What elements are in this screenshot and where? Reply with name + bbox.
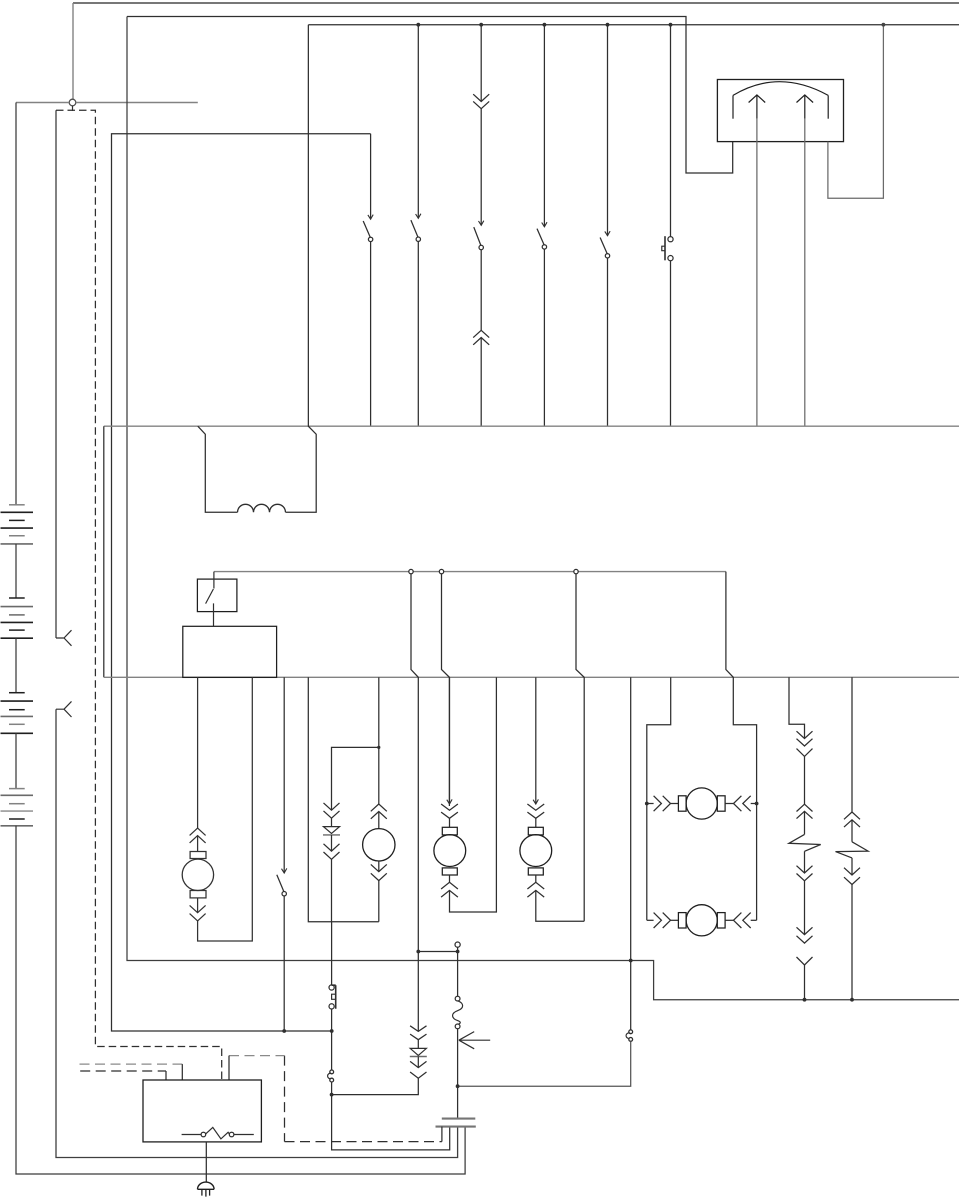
wire: below CB1 to bottom rail y=1149.9 to condenser [332,1082,450,1150]
gauge right tick [827,95,829,118]
pushbutton switch S6 [668,237,673,242]
wire: rail right end jog at bus2 to motor-pair right rail [726,572,757,921]
wire: gauge sender lead 2 down to bus1 [804,119,806,427]
connector chevrons below motor B [535,875,537,882]
breaker contact CB1 [330,1070,334,1074]
wire: diode branch top link y=747.4 [332,747,379,810]
wire: below S7 down to bus y=1031 [283,896,285,1031]
connector: inline pair on column 3 upper [473,94,489,101]
wire: motor-pair left feed from bus2 [647,677,671,920]
wire: x=852 tail to bus3 [851,885,853,1000]
connector chevrons above lamp [371,804,387,811]
flasher internal contact [182,1134,201,1136]
connector chevrons below lamp [378,861,380,872]
wire: column x=852 feed from bus2 [851,677,853,812]
wire: column x=804.5 feed from bus2 [789,677,805,738]
connector chevrons above M1 [190,828,206,835]
wire: lamp bottom to loop [378,881,380,922]
capacitor C1 bottom plate [436,1126,476,1128]
wire: switch column 5 x=607.5 [607,25,609,427]
wire: long return line x=127 down to lower bus then bottom-right bus [127,17,959,1000]
bus: main bus 2 y=677.3 [104,676,959,678]
bus: main bus 1 y=426.2 [104,425,959,427]
wire: left link bus1-bus2 x=103.8 [103,426,105,677]
resistor R1 (fusible link zigzag) [789,834,821,851]
wire: x=457.6 down to thermal element [457,947,459,996]
wire: battery link [15,733,17,788]
wire: switch column 1 x=370.6 [370,134,372,426]
wire: below S8 to bus 1031 and breaker [331,1009,333,1070]
connector chevrons diode branch [324,803,340,810]
wire: x=804.5 tail to bus3 [804,965,806,1000]
actuator arrow at points [459,1032,490,1049]
motor M3 body [520,835,552,867]
wire: drop x=411 jog at bus2 down to junction y=951.5 [411,574,418,1032]
battery B1 cell group 2 [9,597,25,599]
battery B1 cell group 4 [9,788,25,790]
inductor L1 (coil) [238,504,286,512]
wire: motor A column from jog [449,677,451,804]
diode D2 [417,1040,419,1049]
motor M3 brush top [528,827,543,835]
wire: dashed gray stub lead y=1064.1 [80,1063,183,1065]
connector chevrons below motor A [449,875,451,882]
wire: coil right lead up through bus1 jog to line3 [286,25,317,513]
battery B1 cell group 3 [9,692,25,694]
gauge needle arrow 2 [797,95,814,119]
switch S5 [605,231,610,236]
wire: motor B return loop [536,890,584,921]
switch S3 [479,221,484,226]
motor M2 brush top [442,827,457,835]
wire: x=418.3 diode chain below junction [410,1026,426,1032]
terminal circle x=457.6 [455,942,460,947]
relay contact box [197,579,237,612]
connector: inline pair on column 3 lower [473,330,489,337]
connector node on rail x=441.5 [439,569,443,573]
wire: relay feed rail y=571.6 [214,571,726,573]
wire: below CB2 to gray link y=1086.2 [458,1041,631,1086]
wire: switch column 4 x=544.4 [543,25,545,427]
switch S2 [416,214,421,219]
motor M3 brush bottom [528,868,543,875]
breaker contact CB2 [629,1030,633,1034]
junction dots motor row 1 [645,802,649,806]
wire: switch column x=284.2 from bus2 [283,677,285,873]
connector node on rail x=576 [574,569,578,573]
battery B1 cell group 1 [9,504,25,506]
wire: flasher ground stem [205,1142,207,1182]
gauge cluster G1 box [717,80,843,142]
wire: accessory lead x=56 upper [55,110,57,638]
wire: chain bottom to x=331.7 [332,1078,419,1094]
connector chevrons above resistor R2 [844,812,860,819]
motor M4 row (fan pair upper) [647,803,654,805]
connector chevrons below diode [331,835,333,851]
wire: x=457.6 to condenser top plate [457,1029,459,1119]
resistor R2 (fusible link zigzag) [836,842,869,858]
connector pair lower on x=804.5 [797,927,813,934]
wire: condenser bottom drop to dashed lead [441,1127,443,1142]
wire: motor B column from bus2 [535,677,537,804]
wire: dashed lead from flasher to condenser [285,1141,442,1143]
wire: battery link [15,638,17,693]
junction dots on bus y=1031 [282,1029,286,1033]
relay body box [183,626,277,677]
wire: battery negative lead down and along bottom to condenser [16,826,465,1174]
switch S4 [542,222,547,227]
gauge left tick [732,95,734,118]
gauge arc [733,82,828,96]
wire: accessory lead x=56 lower to bottom rail y=1157.5 to condenser [56,709,458,1157]
wire: dashed gray lead flasher top right [229,1055,285,1057]
wire: switch column 3 x=481.2 with connector chevrons [480,25,482,427]
ground symbol [198,1182,215,1189]
wire: column x=630.6 from bus2 through bus y=960.5 [630,677,632,1030]
connector chevrons above motor B [527,804,544,810]
wire: drop x=576 jog at bus2 to motor B loop [576,574,584,922]
wire: x=804.5 to lower connector pair [804,881,806,935]
motor M5 row (fan pair lower) [647,919,654,921]
wire: gauge right terminal to line3 x=883.4 [828,25,884,199]
capacitor C1 top plate [442,1118,476,1120]
wire: top feed line 1 (y=3) to right edge [73,2,959,4]
wire: link y=951.5 [418,951,457,953]
thermal flasher element (squiggle) [455,996,460,1001]
connector: male bullet lower [56,701,72,717]
connector pair on x=804.5 [797,731,813,738]
wire: node horizontal rail y=102.5 [16,102,198,104]
wire: switch column 2 x=418.3 [417,25,419,427]
wire: battery link [15,544,17,598]
motor M2 brush bottom [442,868,457,875]
wire: ignition feed x=111.5 / y=133.8 to switch column 1, down to bus y=1031 [112,134,371,1031]
relay contact blade [206,572,214,627]
lamp bulb [363,829,395,861]
wire: tick below node [72,106,74,111]
motor M1 brush top [190,852,206,859]
wire: gauge sender lead 1 down to bus1 [756,119,758,427]
connector chevrons below M1 [197,898,199,913]
connector chevrons below R1 [804,851,806,873]
wire: diode branch down to loop bottom [331,859,333,921]
wire: switch column 6 x=671 pushbutton [670,25,672,427]
wire: dashed black stub lead y=1071 [80,1070,166,1072]
wire: drop from line1 to junction node [72,3,74,99]
motor M2 body [434,835,466,867]
wire: dashed control lead from node area x=95.4 [56,110,222,1080]
pushbutton switch S8 [329,985,334,990]
wire: motor M1 feed from bus2 [197,677,199,828]
wire: battery positive lead x=16 [15,103,17,505]
wire: motor A return loop to bus2 [450,677,497,912]
motor M1 brush bottom [190,891,206,898]
diode D1 [331,818,333,826]
wire: x=804.5 to upper chevrons [804,756,806,804]
wire: coil left lead with crossover jog at bus1 [198,426,238,512]
wire: M1 return loop to bus2 [198,677,253,941]
connector chevrons below R2 [851,858,853,875]
switch S1 [368,215,373,220]
wire: lamp column x=378.8 from bus2 [378,677,380,804]
wire: drop x=441.5 jog at bus2 to motor A [442,574,450,806]
node: main junction circle [69,99,76,106]
motor M1 body [182,859,213,890]
flasher relay box [143,1080,261,1142]
wire: lamp loop left side x=308.3 [308,677,379,921]
connector chevrons below D2 [417,1057,419,1068]
connector chevrons above resistor R1 [797,804,813,811]
connector: male bullet upper [56,630,72,646]
connector chevrons above motor A [441,804,458,810]
switch S7 [282,868,287,873]
wire: diode string continues below loop to pushbutton [331,922,333,985]
wire: line 2 (y=16.5) to voltmeter left terminal [127,17,733,174]
wire: line 3 (y=24.7) switch feed bus [308,24,959,26]
gauge needle arrow 1 [749,95,766,119]
connector node on rail x=411 [409,569,413,573]
